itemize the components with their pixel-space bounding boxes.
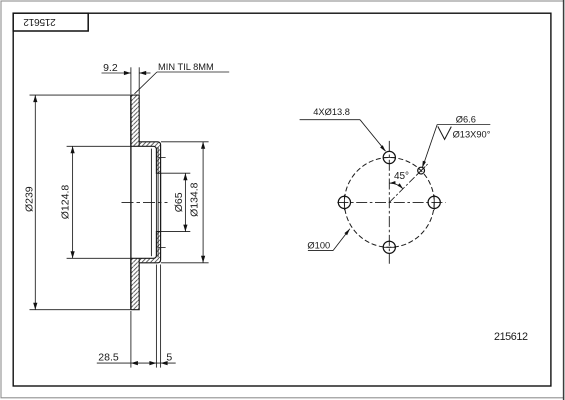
bolt hole right xyxy=(428,196,440,208)
vertical centerline xyxy=(388,141,390,264)
dimension 28.5 and 5 xyxy=(97,265,176,368)
bolt hole bottom xyxy=(383,241,395,253)
svg-text:Ø239: Ø239 xyxy=(23,186,35,212)
plate inner face middle segment xyxy=(155,173,157,231)
note MIN TIL 8MM leader xyxy=(135,72,230,94)
ring right face short joins xyxy=(138,142,140,263)
bolt hole top xyxy=(383,151,395,163)
45 deg angle arc xyxy=(389,183,403,189)
svg-text:5: 5 xyxy=(166,352,172,364)
svg-text:28.5: 28.5 xyxy=(98,352,119,364)
title box xyxy=(13,13,88,31)
plate outer face middle segment xyxy=(160,173,162,231)
bolt hole centerline (lower) in section xyxy=(159,246,166,248)
bolt hole left xyxy=(338,196,350,208)
svg-text:Ø13X90°: Ø13X90° xyxy=(453,130,491,140)
svg-text:Ø65: Ø65 xyxy=(173,192,185,212)
countersink symbol xyxy=(438,126,452,139)
section hatched lower region (mirror) xyxy=(131,232,161,310)
bolt hole centerline (upper) in section xyxy=(159,156,166,158)
dimension 9.2 xyxy=(102,67,151,94)
svg-text:Ø124.8: Ø124.8 xyxy=(60,185,72,220)
label 4XØ13.8 leader xyxy=(300,120,386,151)
svg-text:Ø100: Ø100 xyxy=(307,240,330,250)
dimension Ø124.8 xyxy=(67,146,131,258)
dimension Ø134.8 xyxy=(161,142,209,263)
svg-text:Ø134.8: Ø134.8 xyxy=(188,182,200,217)
svg-text:4XØ13.8: 4XØ13.8 xyxy=(313,107,350,117)
svg-text:9.2: 9.2 xyxy=(103,62,118,74)
section axis centerline xyxy=(122,201,168,203)
svg-text:MIN TIL 8MM: MIN TIL 8MM xyxy=(158,62,214,72)
plate inner recess edge xyxy=(150,149,152,257)
horizontal centerline xyxy=(337,201,445,203)
svg-text:215612: 215612 xyxy=(23,16,56,27)
label Ø100 leader xyxy=(308,229,350,251)
hole center ticks xyxy=(344,158,434,248)
label Ø6.6 / countersink leader xyxy=(422,125,490,168)
small hole Ø6.6 at 45 deg xyxy=(418,167,425,174)
dimension Ø65 xyxy=(161,173,191,231)
svg-text:Ø6.6: Ø6.6 xyxy=(456,114,476,124)
outer border right (darker) xyxy=(563,0,565,400)
bore chamfer edge xyxy=(157,148,159,258)
small hole perpendicular tick xyxy=(417,166,425,174)
bolt circle Ø100 (dashed) xyxy=(344,158,434,248)
45 deg radial line xyxy=(389,164,427,202)
section hatched upper region (ring + band + plate) xyxy=(131,95,161,310)
svg-text:45°: 45° xyxy=(394,171,409,182)
disc left face line xyxy=(130,95,132,310)
dimension Ø239 xyxy=(30,95,131,310)
svg-text:215612: 215612 xyxy=(494,331,528,343)
